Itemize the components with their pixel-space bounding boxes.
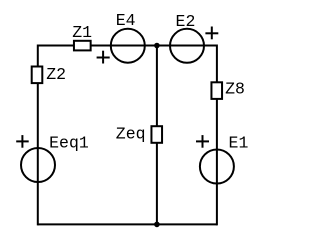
node junction top xyxy=(154,43,160,49)
impedance Z8 xyxy=(211,82,222,99)
svg-text:E4: E4 xyxy=(116,11,136,30)
wire top horizontal xyxy=(38,45,218,47)
polarity + of E4 xyxy=(97,51,110,64)
polarity + of E1 xyxy=(196,135,209,148)
wire bottom horizontal xyxy=(38,223,218,225)
source E1 xyxy=(200,150,234,184)
wire left vertical xyxy=(37,45,39,226)
wire middle vertical xyxy=(156,46,158,225)
svg-text:Z2: Z2 xyxy=(46,65,66,84)
wire right vertical xyxy=(216,45,218,226)
node junction bottom xyxy=(154,222,160,228)
polarity + of E2 xyxy=(205,27,218,40)
svg-text:Eeq1: Eeq1 xyxy=(49,134,89,153)
impedance Z1 xyxy=(74,41,91,51)
svg-text:Zeq: Zeq xyxy=(116,125,146,144)
svg-text:E2: E2 xyxy=(176,12,196,31)
source E2 xyxy=(170,29,204,63)
source Eeq1 xyxy=(21,148,55,182)
polarity + of Eeq1 xyxy=(16,135,29,148)
svg-text:E1: E1 xyxy=(229,133,249,152)
svg-text:Z8: Z8 xyxy=(225,80,245,99)
impedance Z2 xyxy=(32,67,43,84)
impedance Zeq xyxy=(151,126,162,143)
source E4 xyxy=(111,29,145,63)
svg-text:Z1: Z1 xyxy=(72,23,92,42)
